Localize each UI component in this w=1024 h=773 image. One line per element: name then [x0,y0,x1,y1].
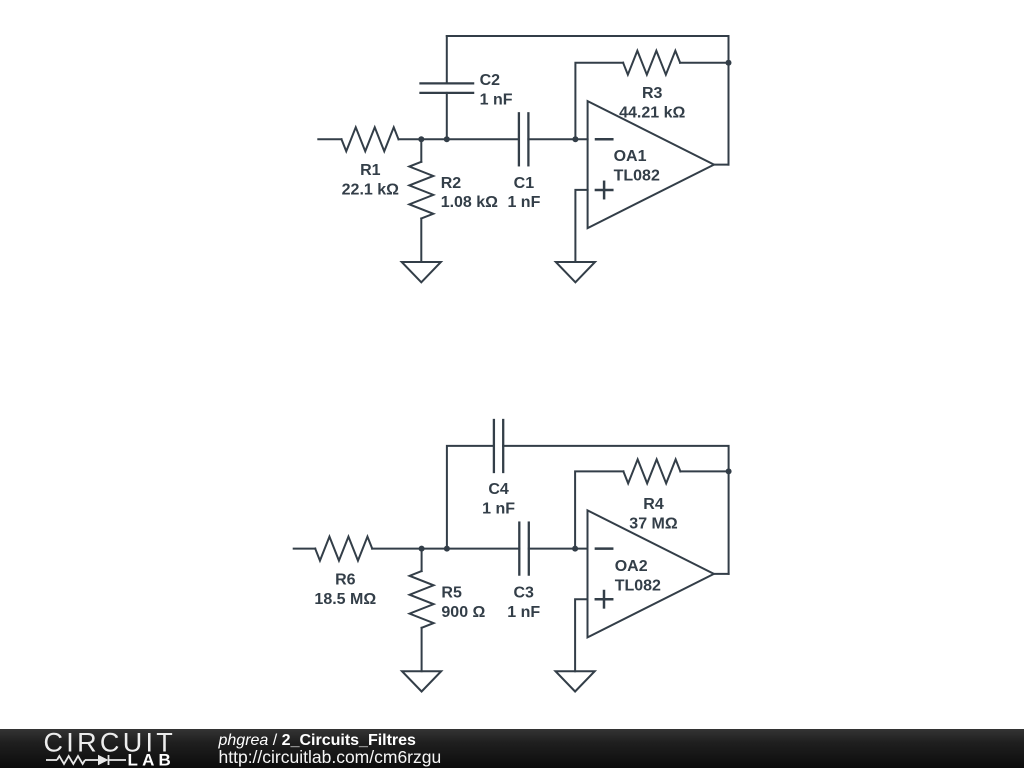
svg-text:R3: R3 [642,85,663,102]
svg-text:22.1 kΩ: 22.1 kΩ [342,181,399,198]
wire non-inverting input circuit 2 [575,599,587,671]
wire feedback top circuit 2 [503,446,728,574]
capacitor C4 [447,446,494,549]
svg-text:TL082: TL082 [614,168,660,185]
svg-text:1 nF: 1 nF [507,604,540,621]
svg-text:1 nF: 1 nF [480,91,513,108]
ground G2 [556,262,595,282]
logo mini wire to diode [85,759,98,761]
capacitor C1 [519,113,529,165]
op-amp U1 minus pin symbol [596,138,612,141]
wire inverting node up circuit 1 [575,63,623,140]
svg-text:44.21 kΩ: 44.21 kΩ [619,105,685,122]
svg-text:C2: C2 [480,72,501,89]
wire R3 to output node [680,62,728,64]
node junction dot A [418,136,424,142]
op-amp U2 triangle [588,510,714,637]
svg-text:1.08 kΩ: 1.08 kΩ [441,194,498,211]
node junction dot D2 output feedback 2 [726,468,732,474]
logo mini diode bar [108,755,110,765]
ground G3 [402,671,441,691]
svg-text:R2: R2 [441,175,462,192]
node junction dot B [444,136,450,142]
svg-text:R4: R4 [643,496,664,513]
svg-text:OA1: OA1 [614,148,647,165]
svg-text:R6: R6 [335,571,356,588]
logo mini schematic wire [46,755,126,765]
op-amp U1 triangle [588,101,714,228]
svg-text:900 Ω: 900 Ω [441,604,485,621]
wire C3 to op-amp [529,548,588,550]
footer bar [0,729,1024,768]
svg-text:1 nF: 1 nF [482,500,515,517]
resistor R3 [623,51,680,75]
resistor R6 [315,537,372,561]
svg-text:C4: C4 [488,481,509,498]
capacitor C3 [519,523,529,575]
ground G4 [556,671,595,691]
node junction dot C inverting input 1 [572,136,578,142]
logo mini wire after diode [109,759,127,761]
svg-text:OA2: OA2 [615,558,648,575]
node junction dot D output feedback 1 [726,60,732,66]
svg-text:R5: R5 [441,585,462,602]
resistor R4 [623,459,680,483]
resistor R2 [420,139,422,162]
wire feedback top circuit 1 [447,36,729,165]
logo mini resistor [57,756,85,764]
logo mini diode triangle [98,755,109,765]
wire input left stub circuit 1 [318,138,341,140]
svg-text:37 MΩ: 37 MΩ [629,515,678,532]
ground G1 [402,262,441,282]
op-amp U1 plus pin symbol [596,182,612,198]
svg-text:http://circuitlab.com/cm6rzgu: http://circuitlab.com/cm6rzgu [219,747,442,767]
wire C1 to op-amp [528,138,587,140]
wire input left stub circuit 2 [294,548,316,550]
svg-text:TL082: TL082 [615,578,661,595]
wire inverting node up circuit 2 [575,471,623,548]
node junction dot A2 [419,546,425,552]
wire output circuit 2 [714,573,729,575]
svg-text:C3: C3 [513,585,534,602]
svg-text:18.5 MΩ: 18.5 MΩ [314,591,376,608]
resistor R5 [421,549,423,572]
wire R1 to C1 [399,138,519,140]
svg-text:C1: C1 [514,175,535,192]
wire R6 to C3 [372,548,519,550]
capacitor C2 [446,93,448,139]
svg-text:1 nF: 1 nF [507,194,540,211]
svg-text:LAB: LAB [128,751,176,769]
op-amp U2 plus pin symbol [596,591,612,607]
op-amp U2 minus pin symbol [596,547,612,550]
wire R4 to output node [680,470,728,472]
node junction dot C2 inverting input 2 [572,546,578,552]
resistor R1 [342,127,399,151]
wire non-inverting input circuit 1 [575,190,587,262]
wire output circuit 1 [714,164,729,166]
svg-text:R1: R1 [360,162,381,179]
node junction dot B2 [444,546,450,552]
